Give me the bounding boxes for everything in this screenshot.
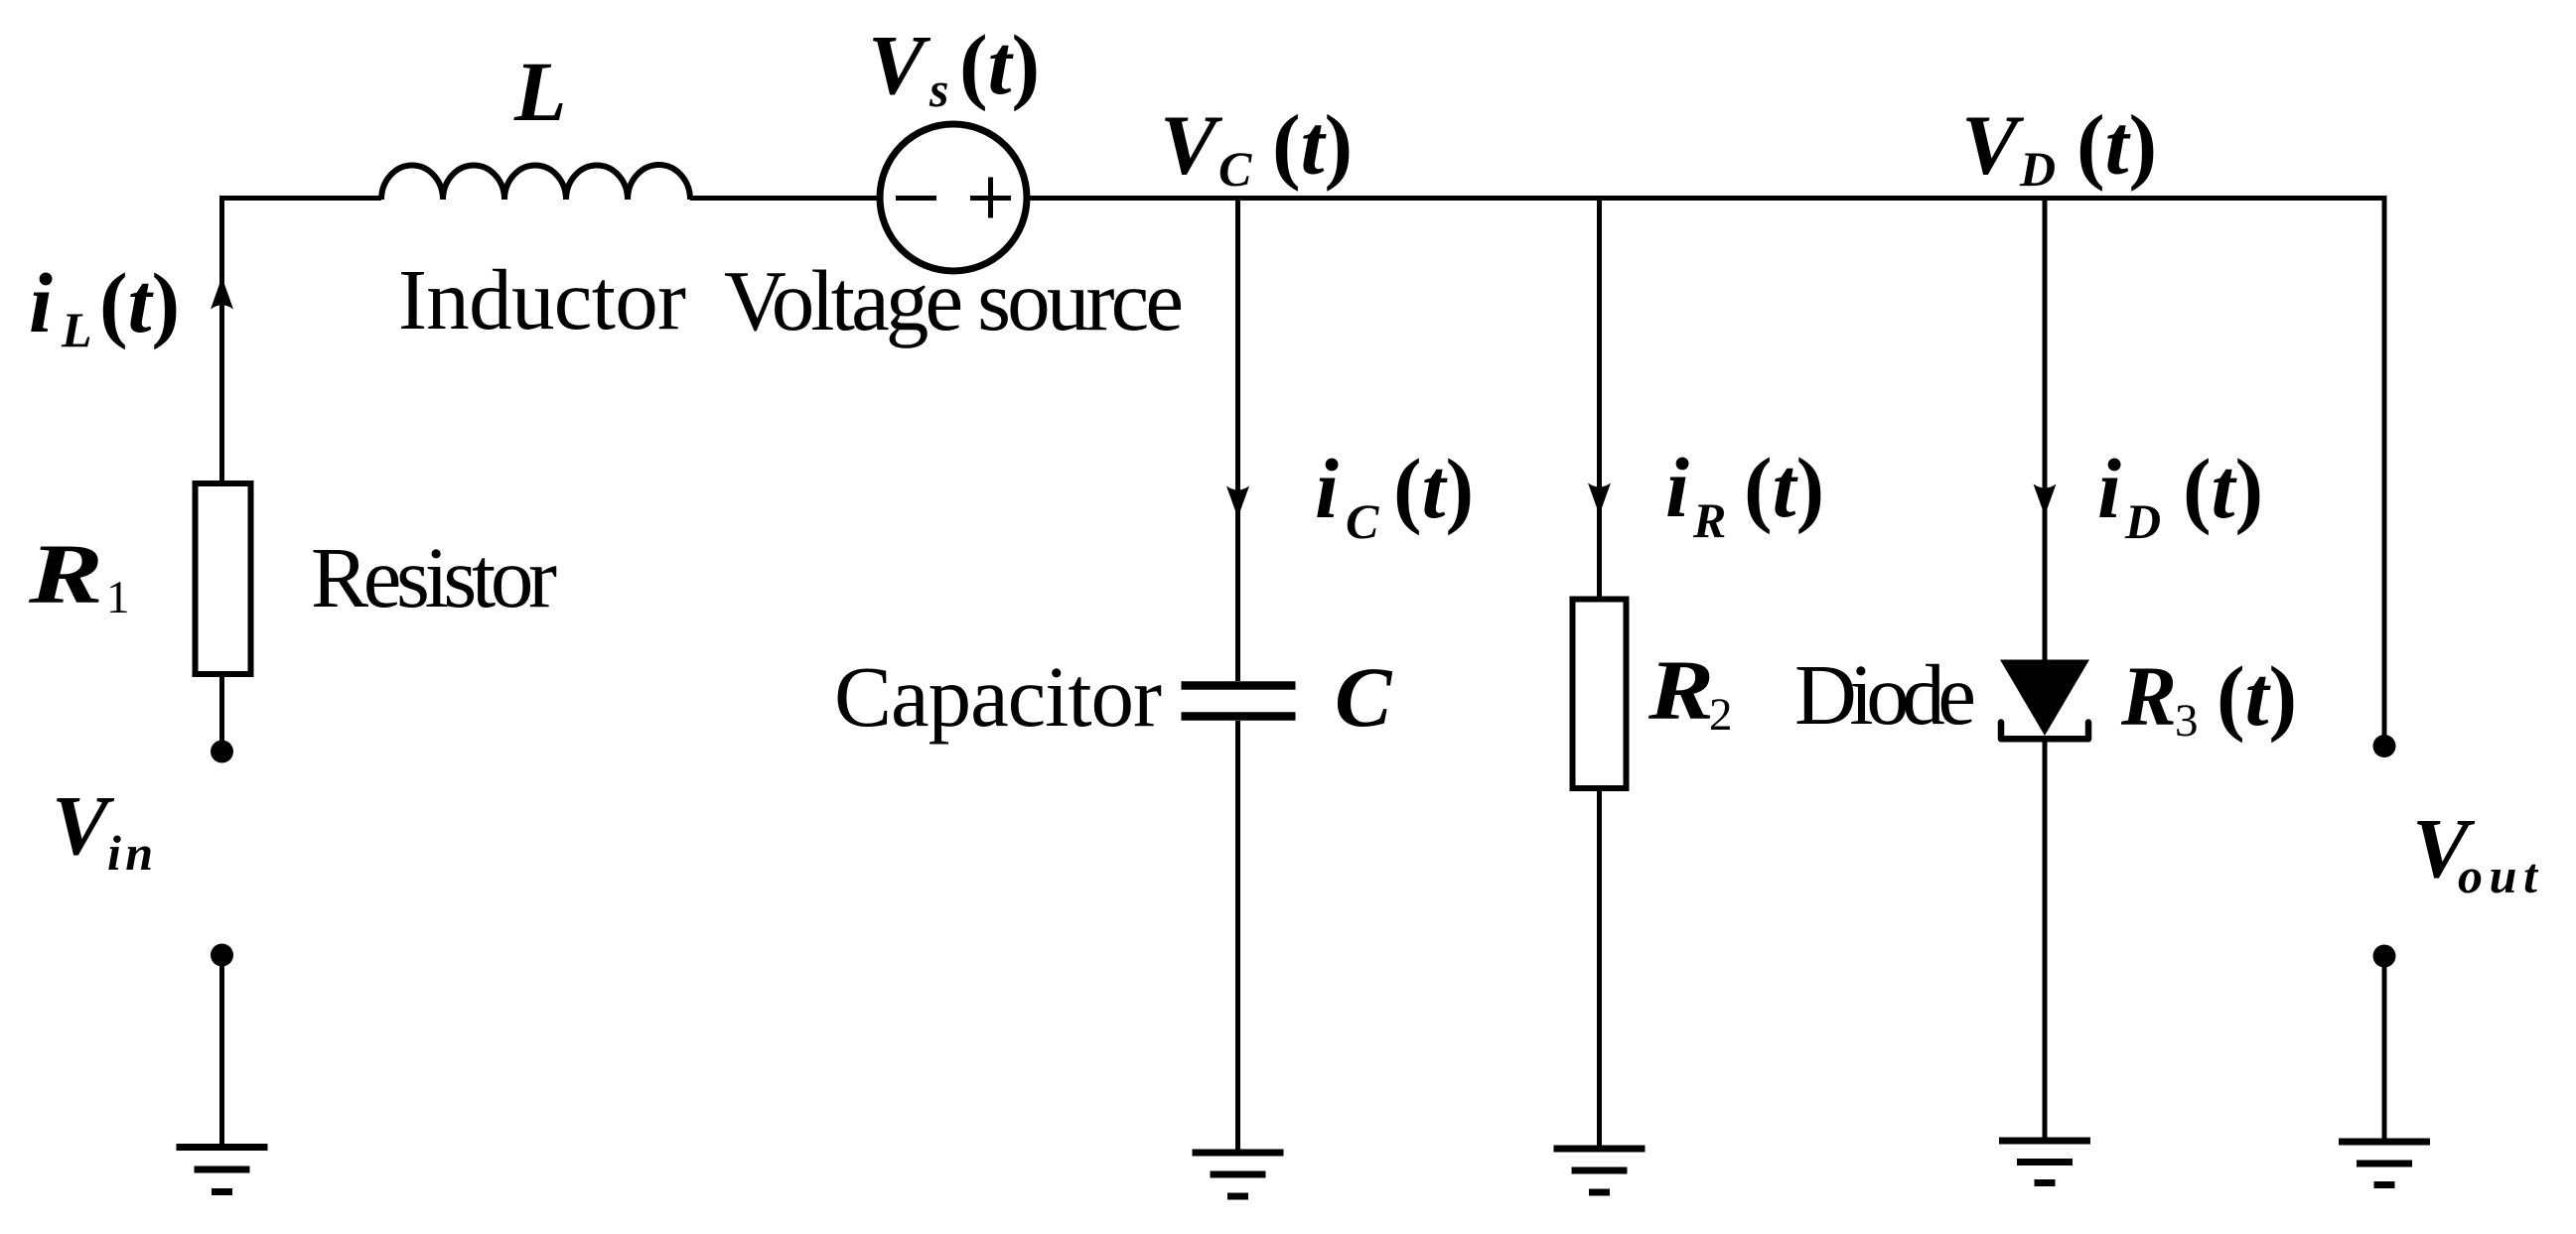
label Vs(t) xyxy=(868,17,1040,117)
wire diode to ground xyxy=(2043,743,2048,1138)
wire Vin dot to ground xyxy=(219,961,224,1144)
svg-text:i: i xyxy=(2097,441,2121,536)
svg-text:D: D xyxy=(2019,141,2056,197)
label iD(t) xyxy=(2097,441,2263,549)
svg-text:Capacitor: Capacitor xyxy=(834,648,1162,745)
arrow iC down xyxy=(1226,486,1249,518)
svg-text:C: C xyxy=(1335,649,1393,745)
svg-text:in: in xyxy=(107,825,153,881)
wire capacitor branch upper xyxy=(1235,199,1240,682)
ground under capacitor xyxy=(1193,1153,1284,1196)
arrow iD down xyxy=(2034,484,2057,516)
wire R1 to Vin node xyxy=(219,674,224,752)
wire inductor to voltage source xyxy=(690,196,880,201)
svg-text:Voltage source: Voltage source xyxy=(724,252,1184,348)
svg-text:V: V xyxy=(1160,97,1223,193)
ground under R2 xyxy=(1554,1149,1646,1192)
label VD(t) xyxy=(1961,97,2157,198)
node dot Vin top xyxy=(211,741,233,763)
label R3(t) xyxy=(2120,648,2297,747)
svg-text:Resistor: Resistor xyxy=(311,529,557,625)
label iL(t) xyxy=(29,255,180,357)
svg-text:V: V xyxy=(1961,97,2025,193)
svg-text:(t): (t) xyxy=(2076,97,2157,193)
svg-text:R: R xyxy=(28,526,103,621)
svg-text:s: s xyxy=(929,62,948,117)
node dot Vin bottom xyxy=(211,944,233,967)
svg-text:L: L xyxy=(61,302,92,357)
wire capacitor to ground xyxy=(1235,721,1240,1150)
wire R2 to ground xyxy=(1597,788,1602,1146)
wire voltage source to top-right corner xyxy=(1027,199,2384,741)
label Vin xyxy=(52,777,153,881)
svg-text:(t): (t) xyxy=(959,17,1040,112)
svg-text:R: R xyxy=(1647,642,1714,738)
ground under Vout xyxy=(2339,1142,2430,1185)
voltage source Vs circle xyxy=(880,124,1027,271)
diode triangle xyxy=(2000,660,2089,737)
wire diode branch upper xyxy=(2043,199,2048,664)
svg-text:out: out xyxy=(2458,848,2539,903)
wire R2 branch upper xyxy=(1597,199,1602,600)
svg-text:L: L xyxy=(513,44,567,139)
svg-text:1: 1 xyxy=(106,572,130,623)
svg-text:C: C xyxy=(1218,141,1252,197)
svg-text:Diode: Diode xyxy=(1794,646,1976,743)
svg-text:C: C xyxy=(1346,493,1379,549)
label R1 xyxy=(28,526,130,623)
diode cathode bar xyxy=(2001,723,2088,740)
voltage source minus sign xyxy=(896,196,936,201)
node dot Vout bottom xyxy=(2373,945,2396,968)
label iC(t) xyxy=(1315,441,1474,549)
svg-text:(t): (t) xyxy=(2217,648,2297,744)
arrow iR down xyxy=(1588,483,1611,515)
capacitor C top plate xyxy=(1182,681,1296,690)
wire Vout dot to ground xyxy=(2382,962,2387,1139)
svg-text:(t): (t) xyxy=(1744,440,1824,535)
svg-text:D: D xyxy=(2124,493,2161,549)
capacitor C bottom plate xyxy=(1182,712,1296,721)
label VC(t) xyxy=(1160,97,1353,198)
svg-text:(t): (t) xyxy=(1393,441,1474,536)
label R2 xyxy=(1647,642,1733,741)
svg-text:2: 2 xyxy=(1709,689,1733,741)
svg-text:3: 3 xyxy=(2175,695,2199,747)
resistor R2 body xyxy=(1573,600,1627,789)
ground under Vin xyxy=(177,1148,268,1192)
inductor L coil xyxy=(381,165,690,200)
svg-text:V: V xyxy=(52,777,115,873)
svg-text:(t): (t) xyxy=(99,255,180,350)
voltage source plus sign xyxy=(970,178,1011,218)
svg-text:Inductor: Inductor xyxy=(398,251,686,347)
svg-text:R: R xyxy=(1692,492,1726,548)
ground under diode xyxy=(1999,1141,2090,1183)
svg-text:(t): (t) xyxy=(1272,97,1353,193)
wire left branch vertical and top-left horizontal segment xyxy=(222,199,382,484)
svg-text:(t): (t) xyxy=(2183,441,2263,536)
svg-text:i: i xyxy=(29,255,53,350)
svg-text:i: i xyxy=(1315,441,1339,536)
resistor R1 body xyxy=(196,483,251,674)
svg-text:V: V xyxy=(868,17,931,112)
label Vout xyxy=(2412,800,2539,903)
svg-text:R: R xyxy=(2120,648,2177,744)
node dot Vout top xyxy=(2373,735,2396,757)
svg-text:i: i xyxy=(1665,440,1689,535)
label iR(t) xyxy=(1665,440,1824,548)
arrow iL up xyxy=(211,277,233,310)
